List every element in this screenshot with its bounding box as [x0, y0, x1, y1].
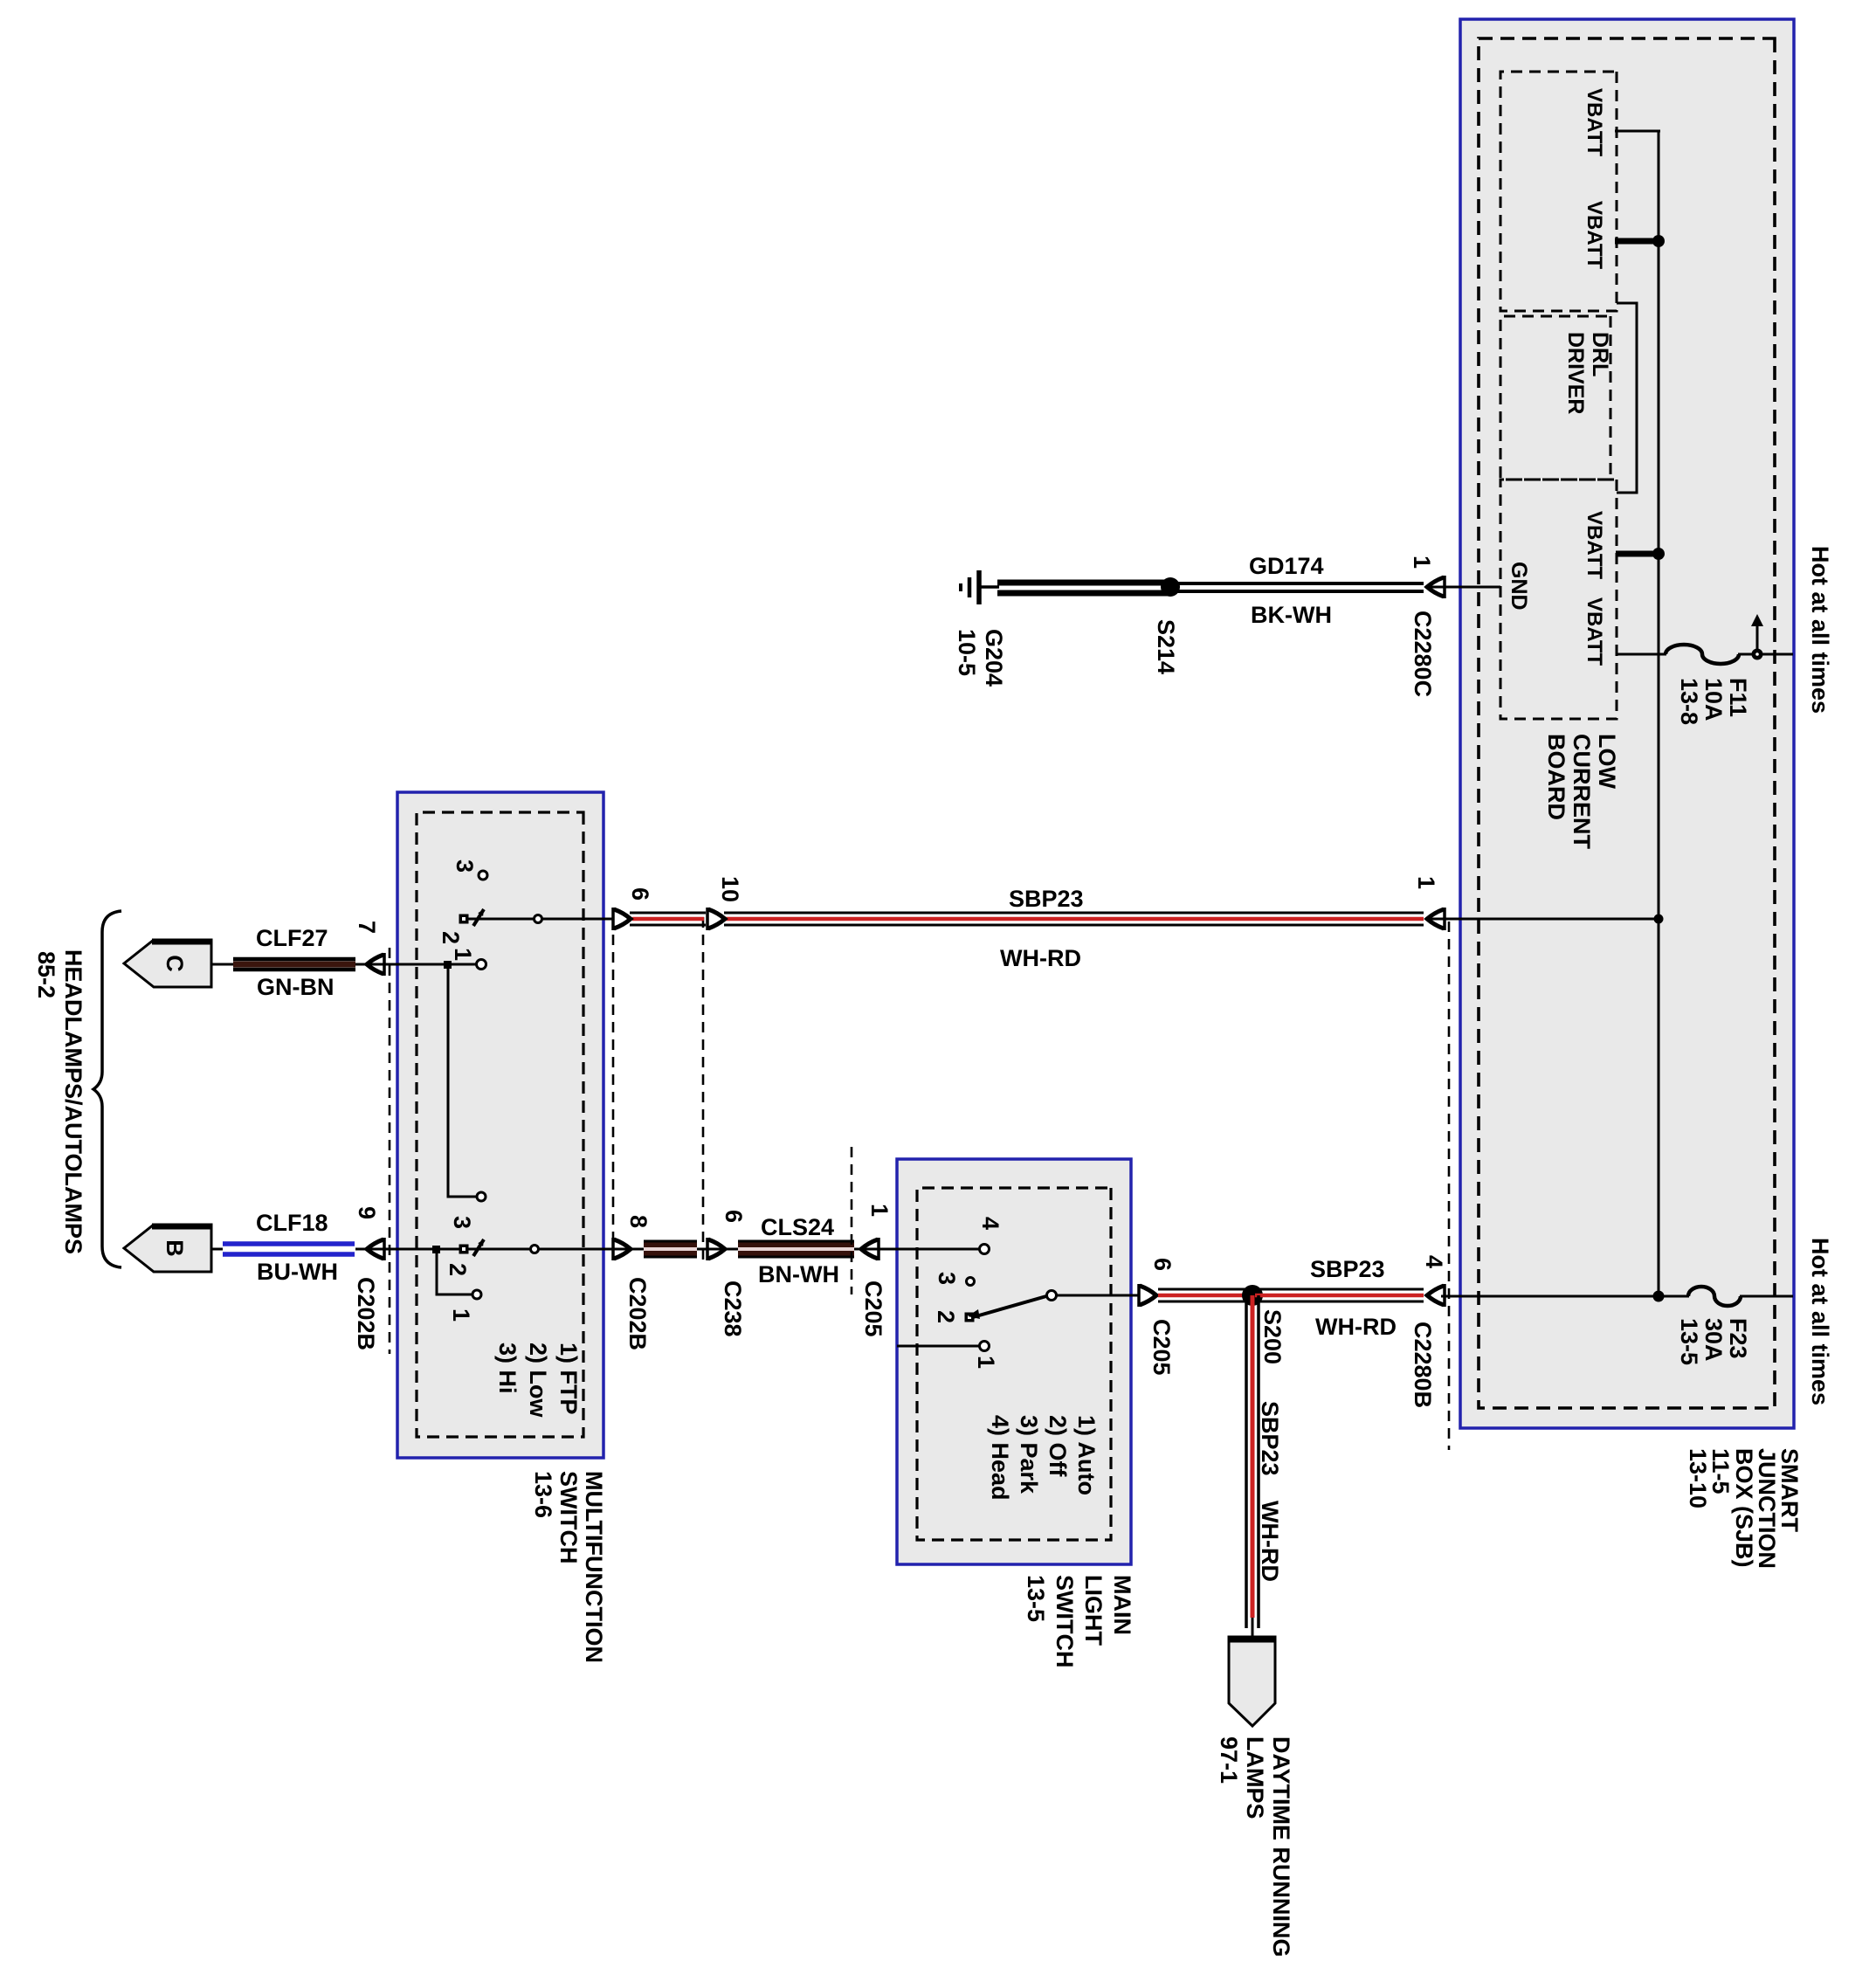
wire CLF27 from section1 pin1 down/out of box [355, 963, 477, 966]
svg-text:LIGHT: LIGHT [1080, 1575, 1107, 1646]
svg-text:CLS24: CLS24 [761, 1214, 834, 1240]
connector C202B dashed line (left) [389, 948, 391, 1354]
svg-text:3) Hi: 3) Hi [494, 1343, 521, 1394]
svg-text:C205: C205 [860, 1280, 886, 1337]
svg-text:DRIVER: DRIVER [1563, 332, 1588, 414]
svg-text:JUNCTION: JUNCTION [1754, 1448, 1780, 1569]
svg-text:VBATT: VBATT [1583, 88, 1606, 157]
connector C202B arrow pin 7 [367, 953, 384, 976]
GND pin wire from low current board [1428, 586, 1500, 589]
wire SBP23 WH-RD branch to daytime running lamps [1257, 1295, 1260, 1628]
svg-text:11-5: 11-5 [1707, 1448, 1734, 1494]
pin 1 terminal circle [980, 1342, 990, 1351]
svg-text:GN-BN: GN-BN [257, 974, 335, 1000]
wire from C205 to pin 4 [897, 1248, 980, 1251]
svg-text:WH-RD: WH-RD [1000, 945, 1081, 971]
svg-text:3: 3 [934, 1272, 960, 1285]
wire CLF27 GN-BN colored bar [233, 957, 355, 962]
svg-text:97-1: 97-1 [1216, 1736, 1242, 1784]
svg-text:4) Head: 4) Head [987, 1415, 1013, 1501]
svg-text:C2280B: C2280B [1410, 1322, 1436, 1408]
svg-text:HEADLAMPS/AUTOLAMPS: HEADLAMPS/AUTOLAMPS [60, 949, 86, 1254]
connector C205 arrow pin 1 [854, 1248, 897, 1251]
switch contact pad pin 2 (section 1) [459, 915, 469, 924]
svg-text:13-5: 13-5 [1676, 1318, 1702, 1365]
pin 3 terminal circle (section 1) [479, 871, 487, 880]
wire CLS24 jumper C202B to C238 [644, 1242, 697, 1256]
ground symbol G204 [981, 585, 999, 589]
internal link wire section1 pin1 to section2 pin3 [448, 964, 477, 1197]
power feed arrow at F11 [1756, 624, 1759, 651]
junction on trunk (SBP23) [1654, 915, 1664, 924]
svg-text:2) Off: 2) Off [1045, 1415, 1071, 1478]
svg-text:1: 1 [866, 1204, 893, 1217]
svg-text:SWITCH: SWITCH [555, 1471, 582, 1563]
svg-text:BOX (SJB): BOX (SJB) [1731, 1448, 1757, 1568]
SJB inner dashed border [1479, 38, 1775, 1408]
svg-text:2: 2 [933, 1310, 959, 1323]
wire stub into B pentagon [211, 1248, 223, 1251]
svg-text:7: 7 [354, 921, 380, 934]
svg-text:1: 1 [1413, 876, 1439, 889]
wire pivot to box edge [1056, 1294, 1131, 1297]
svg-text:4: 4 [977, 1217, 1004, 1230]
connector C202B arrow pin 6 [613, 908, 631, 930]
VBATT pin 1 stub [1615, 130, 1660, 133]
pin 1 terminal circle (section 1) [477, 960, 486, 970]
pin 1 terminal circle (section 2) [472, 1290, 481, 1299]
pivot terminal circle [1047, 1291, 1057, 1301]
wire SBP23 WH-RD (switch to S200) [1158, 1288, 1250, 1291]
fuse F11 feed wire from top border [1738, 653, 1793, 656]
connector C202B arrow pin 8 [613, 1238, 631, 1260]
smart junction box U1 (SJB) outline [1460, 19, 1794, 1428]
junction square (section 2) [432, 1246, 440, 1253]
svg-text:13-8: 13-8 [1676, 678, 1702, 725]
svg-text:1) Auto: 1) Auto [1073, 1415, 1100, 1495]
DRL driver link bracket [1617, 303, 1637, 493]
connector C2280B dashed line [1448, 922, 1451, 1450]
svg-text:C: C [162, 955, 188, 972]
connector C205 dashed line [851, 1147, 853, 1294]
connector C238 arrow pin 6 [707, 1238, 725, 1260]
svg-text:3: 3 [449, 1216, 475, 1229]
svg-text:1: 1 [450, 948, 476, 961]
low current board sub-box B (VBATT GND VBATT) [1500, 480, 1617, 719]
splice S200 [1242, 1285, 1263, 1306]
wire SBP23 WH-RD (S200 to SJB pin 4) [1255, 1288, 1424, 1291]
junction square on CLF27 wire [444, 961, 452, 969]
svg-text:VBATT: VBATT [1583, 511, 1606, 580]
svg-text:10A: 10A [1700, 678, 1727, 721]
svg-text:MULTIFUNCTION: MULTIFUNCTION [581, 1471, 607, 1663]
svg-text:6: 6 [721, 1210, 747, 1223]
svg-text:C202B: C202B [353, 1277, 379, 1350]
pin 3 terminal circle [967, 1278, 975, 1286]
svg-text:S214: S214 [1153, 619, 1179, 674]
wire into multifunction switch (high beam feed) [464, 918, 614, 921]
SBP23 wire inside SJB to trunk [1428, 918, 1659, 921]
junction at F11 feed [1752, 649, 1763, 660]
main light switch box [897, 1159, 1131, 1564]
svg-text:SBP23: SBP23 [1310, 1256, 1385, 1282]
wire CLS24 BN-WH colored bar [738, 1242, 854, 1256]
svg-text:SMART: SMART [1776, 1448, 1803, 1532]
svg-text:10: 10 [717, 876, 743, 902]
svg-text:DAYTIME RUNNING: DAYTIME RUNNING [1268, 1736, 1294, 1957]
svg-text:13-6: 13-6 [530, 1471, 556, 1518]
junction of F23 wire and trunk [1653, 1291, 1665, 1302]
svg-text:Hot at all times: Hot at all times [1807, 546, 1833, 714]
low current board sub-box A (VBATT VBATT) [1500, 72, 1617, 311]
svg-text:S200: S200 [1259, 1309, 1286, 1364]
svg-text:2: 2 [438, 931, 464, 944]
wire SBP23 WH-RD long run [724, 912, 1424, 915]
svg-text:C205: C205 [1148, 1319, 1175, 1376]
svg-text:SWITCH: SWITCH [1052, 1575, 1078, 1667]
pin 2 contact pad [965, 1313, 975, 1322]
wire GD174 BK-WH thin double section [1170, 582, 1424, 585]
fuse F11 10A [1666, 645, 1739, 664]
svg-text:B: B [162, 1239, 188, 1257]
multifunction switch inner dashed box [417, 812, 583, 1437]
multifunction switch box [397, 792, 603, 1458]
terminal circle at box edge [535, 915, 542, 923]
svg-text:1: 1 [1409, 556, 1435, 569]
switch blade pin2 to pivot [973, 1296, 1046, 1317]
connector C2280B arrow pin 4 [1427, 1284, 1445, 1307]
junction on trunk at VBATT pin2 [1652, 235, 1665, 247]
wire from pivot out of box top [1131, 1294, 1138, 1297]
svg-text:6: 6 [1149, 1258, 1176, 1271]
main light switch inner dashed box [917, 1188, 1111, 1540]
svg-text:VBATT: VBATT [1583, 201, 1606, 270]
svg-text:1) FTP: 1) FTP [555, 1343, 582, 1415]
connector C202B arrow pin 9 [367, 1238, 384, 1260]
svg-text:BN-WH: BN-WH [758, 1261, 839, 1287]
pin 1 stub wire [897, 1345, 979, 1348]
wire CLF18 BU-WH colored bar [223, 1241, 355, 1246]
connector C2280B arrow pin 1 [1427, 908, 1445, 930]
off-page arrow C (headlamps) [124, 940, 211, 987]
pin 3 terminal circle (section 2) [477, 1192, 486, 1201]
VBATT bus trunk wire [1658, 131, 1660, 1296]
wire CLS24/CLF18 main vertical run through switch section 2 [355, 1248, 738, 1251]
svg-text:WH-RD: WH-RD [1257, 1501, 1283, 1582]
svg-text:1: 1 [448, 1308, 474, 1322]
connector C2280C arrow pin 1 [1427, 576, 1445, 598]
brace under headlamp arrows [93, 911, 121, 1267]
svg-text:BU-WH: BU-WH [257, 1259, 338, 1285]
svg-text:10-5: 10-5 [954, 629, 980, 676]
svg-text:SBP23: SBP23 [1009, 886, 1084, 912]
svg-text:3) Park: 3) Park [1016, 1415, 1042, 1494]
svg-text:9: 9 [354, 1206, 380, 1219]
switch blade (section 1) [473, 909, 484, 926]
svg-text:3: 3 [452, 859, 478, 873]
wire SBP23 jumper C238 to C202B [630, 912, 706, 915]
off-page arrow DAYTIME RUNNING LAMPS [1229, 1637, 1275, 1726]
svg-text:LAMPS: LAMPS [1242, 1736, 1268, 1819]
connector C238 dashed line [702, 917, 705, 1260]
svg-text:13-10: 13-10 [1685, 1448, 1711, 1508]
svg-text:8: 8 [625, 1215, 652, 1228]
svg-text:SBP23: SBP23 [1257, 1401, 1283, 1476]
svg-text:F23: F23 [1725, 1318, 1751, 1359]
svg-text:CURRENT: CURRENT [1569, 734, 1595, 850]
VBATT pin 3 stub (thick) [1616, 551, 1659, 557]
svg-text:Hot at all times: Hot at all times [1807, 1238, 1833, 1405]
junction on trunk at VBATT pin3 [1652, 548, 1665, 560]
svg-text:F11: F11 [1725, 678, 1751, 717]
wire stub into C pentagon [211, 963, 233, 966]
svg-text:GND: GND [1507, 562, 1531, 611]
branch to pin 1 (section 2) [437, 1249, 472, 1294]
splice S214 [1161, 577, 1180, 597]
VBATT pin 2 stub (thick) [1615, 238, 1659, 245]
svg-text:2) Low: 2) Low [525, 1343, 551, 1418]
svg-text:1: 1 [973, 1356, 999, 1369]
svg-text:CLF27: CLF27 [256, 925, 328, 951]
svg-text:G204: G204 [981, 629, 1007, 687]
wire GD174 thick double section [997, 580, 1170, 586]
svg-text:30A: 30A [1700, 1318, 1727, 1362]
svg-text:BOARD: BOARD [1543, 734, 1569, 820]
connector C205 arrow pin 6 (output) [1139, 1284, 1156, 1307]
svg-text:DRL: DRL [1588, 332, 1612, 376]
DRL DRIVER box [1500, 316, 1610, 480]
svg-text:6: 6 [627, 887, 653, 901]
svg-text:C238: C238 [720, 1280, 746, 1337]
fuse F23 30A [1688, 1287, 1741, 1306]
svg-text:C202B: C202B [624, 1277, 651, 1350]
connector C202B dashed line [612, 917, 615, 1260]
svg-text:2: 2 [445, 1263, 471, 1276]
pin 4 terminal circle [980, 1245, 990, 1254]
off-page arrow B (headlamps) [124, 1225, 211, 1272]
svg-text:BK-WH: BK-WH [1251, 602, 1332, 628]
svg-text:13-5: 13-5 [1023, 1575, 1049, 1622]
svg-text:VBATT: VBATT [1583, 597, 1606, 666]
svg-text:GD174: GD174 [1249, 553, 1324, 579]
switch contact pad pin 2 (section 2) [459, 1245, 469, 1254]
svg-text:C2280C: C2280C [1410, 611, 1436, 697]
svg-text:MAIN: MAIN [1109, 1575, 1135, 1635]
svg-text:85-2: 85-2 [33, 951, 59, 998]
svg-text:CLF18: CLF18 [256, 1210, 328, 1236]
svg-text:WH-RD: WH-RD [1315, 1314, 1397, 1340]
svg-text:LOW: LOW [1594, 734, 1620, 789]
terminal circle at box edge (section 2) [531, 1246, 539, 1253]
switch blade (section 2) [473, 1239, 484, 1256]
svg-text:4: 4 [1421, 1255, 1447, 1268]
fuse F23 feed wire from top border [1740, 1295, 1793, 1298]
connector C238 arrow pin 10 [707, 908, 725, 930]
